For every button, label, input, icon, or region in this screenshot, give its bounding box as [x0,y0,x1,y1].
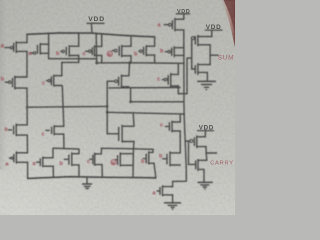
svg-text:c: c [42,81,45,87]
wire: N-c2 risers [179,114,181,122]
wire: inverter gate rail [191,40,193,69]
pmos P7 [15,124,17,135]
svg-text:VDD: VDD [177,9,190,15]
nmos N-a3 [119,153,121,166]
wire: T9 to bottom rail [52,166,54,177]
wire: VDD drop to mid rails [95,33,98,63]
pmos P-c4 (left of VDD drop) [93,46,95,56]
nmos N-inv2 [205,153,208,160]
svg-text:VDD: VDD [206,24,222,31]
carry inverter: VDD4 lead [204,131,206,137]
pmos P8 [15,152,17,163]
nmos N-b5 [169,152,171,166]
svg-text:SUM: SUM [218,55,234,62]
wire: ground G1 lead [86,177,88,184]
wire: N-b2 to bottom rail [78,165,80,177]
pmos P6 [53,75,55,86]
wire: M5 rail [53,147,79,150]
sum inverter: VDD3 lead [211,30,213,36]
node junction dots [95,61,98,64]
wire: T4 down through mid-rail to P7 [26,88,28,125]
wire: VDD mid rail y63 [97,62,184,65]
wire: M5 corner down to N-b2 [78,149,80,154]
wire: M4 rail [102,148,154,149]
wire: N-b4 to bottom rail corner [154,163,156,178]
wire: P-c2 risers [177,63,179,74]
grain overlay [0,0,235,215]
wire: P-rev top riser [128,63,131,76]
pmos P-c3 row3 left [53,126,55,135]
wire: P-b3 risers [154,37,156,46]
ground G3 [198,181,212,183]
wire: N-inv1 to ground [206,72,208,81]
wire: M4 right corner down to N-b4 [152,149,154,152]
wire: riser x48.6 [48,33,50,59]
wire: P3 riser to rail [78,33,80,46]
wire: riser x130.6 to M3 [130,88,132,102]
wire: mid rail M1 [27,105,107,108]
pmos P1 [15,42,17,53]
nmos N-a4 bottom [162,186,164,196]
VDD2 lead and pmos P-a1 [183,14,185,19]
svg-text:VDD: VDD [88,16,105,23]
svg-text:c: c [157,77,160,83]
wire: P-a2 risers [130,36,132,46]
pmos P-b4 [173,47,175,57]
pmos P2 [39,44,41,54]
VDD3 underline [206,29,223,31]
svg-text:c: c [83,51,86,57]
svg-text:VDD: VDD [199,125,214,132]
wire: top VDD rail [27,33,155,37]
VDD4 underline [198,130,214,132]
wire: T1-T4 series [26,51,28,77]
wire: P3 staircase down to P6 [62,56,79,76]
nmos N-c3 [94,153,96,165]
nmos N-mid tall [121,125,123,142]
wire: carry inverter gate rail [189,141,196,164]
wire: inverter output to SUM [210,45,218,55]
nmos N-b2 [71,153,73,165]
ground G2 [198,80,216,82]
wire: P8 to bottom rail [27,162,29,178]
svg-text:c: c [42,132,45,138]
wire: N-mid top riser to M2 [132,113,135,126]
wire: left column riser rail-T1 [26,34,28,42]
nmos N-a2 (T9) [42,157,44,167]
svg-text:c: c [87,159,90,165]
wire: long column x184 [173,30,187,187]
pmos P-a2 [121,45,123,56]
wire: N-c3 to bottom rail [101,165,103,178]
wire: N-inv2 to ground [203,169,205,182]
svg-text:c: c [160,123,163,129]
wire: inverter input column [187,58,192,94]
paper background [0,0,235,215]
wire: to ground G4 [172,195,174,203]
VDD1 underline [87,22,104,24]
wire: y58.8 horizontal [49,58,97,60]
pmos P-inv1 [197,35,199,45]
VDD2 underline [177,13,190,15]
wire: M3 rail [131,101,184,103]
pmos P-inv2 [196,136,198,148]
photo dark edge top-right [221,0,235,47]
wire: mid rail M2 [107,112,184,114]
wire: carry output [206,147,217,153]
pmos P3 [68,46,70,56]
svg-text:CARRY: CARRY [210,160,234,166]
ground G1 [83,183,92,185]
VDD1 lead [90,24,93,33]
pmos P-b3 [145,46,147,56]
wire: N-mid bottom long riser to bottom rail [133,142,134,178]
pmos P4 [14,76,16,89]
wire: T9 top riser [52,148,54,158]
wire: sum-net y87.8 [122,86,129,88]
pmos P-c2 right [170,74,172,87]
wire: M4 left corner down to N-c3 [100,148,102,154]
wire: P6 long drop to row3 c-pmos [62,86,64,127]
wire: bottom rail [28,177,156,179]
nmos N-c2 right mid [171,121,173,132]
wire: drop to M5 rail [63,134,65,148]
wire: gate column x107 [106,81,108,134]
ground G4 [165,202,181,204]
nmos N-inv1 [209,55,211,64]
nmos N-b4 [148,152,150,164]
wire: P-c4 risers [101,34,103,46]
pmos P-rev (bubble mid) [121,75,123,87]
wire: P7-P8 [26,135,28,153]
